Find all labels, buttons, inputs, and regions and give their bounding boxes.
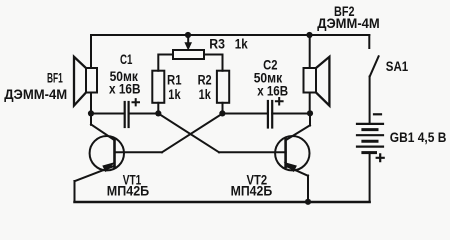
svg-text:1k: 1k: [235, 36, 248, 51]
wire bottom rail: [75, 201, 370, 204]
node top rail / BF2: [306, 32, 312, 38]
node top rail / R3 wiper: [185, 32, 191, 38]
wire C1 to node B: [129, 113, 159, 115]
wire R1 bottom lead: [157, 103, 159, 114]
speaker BF1: [74, 57, 97, 106]
svg-text:C1: C1: [120, 52, 133, 67]
wire top rail: [91, 34, 369, 36]
node D C2/BF2/VT2 collector: [307, 110, 313, 116]
svg-text:ДЭММ-4М: ДЭММ-4М: [4, 87, 67, 102]
capacitor C1: [125, 99, 139, 127]
wire R3 wiper: [187, 35, 189, 44]
svg-text:SA1: SA1: [386, 59, 409, 74]
node B C1/R1/cross-wire: [155, 110, 161, 116]
wire VT2 emitter vertical: [307, 176, 309, 203]
svg-text:R3: R3: [209, 36, 225, 51]
wire battery to bottom rail: [369, 153, 371, 202]
svg-text:х 16В: х 16В: [109, 81, 141, 96]
wire R3 right lead: [204, 55, 223, 71]
R3 wiper arrowhead: [184, 42, 192, 50]
wire R2 bottom lead: [222, 103, 224, 114]
wire BF1 top vertical: [90, 35, 92, 68]
wire VT1 emitter vertical: [74, 181, 76, 202]
node C C2/R2/cross-wire: [219, 110, 225, 116]
wire cross-couple node B to VT2 base: [158, 114, 219, 153]
wire cross-couple node C to VT1 base: [162, 114, 223, 153]
resistor R1: [152, 71, 164, 103]
svg-text:GB1 4,5 В: GB1 4,5 В: [390, 130, 447, 145]
resistor R2: [217, 71, 229, 103]
capacitor C2: [268, 98, 283, 128]
wire BF1 bottom vertical: [90, 93, 92, 114]
wire VT2 base lead: [219, 151, 286, 153]
transistor VT2: [275, 125, 310, 176]
wire R1 top lead: [158, 55, 173, 71]
wire C2 to node D: [272, 113, 310, 115]
battery GB1: [357, 114, 384, 161]
wire SA1 to battery: [369, 77, 371, 123]
resistor R3: [173, 50, 204, 59]
transistor VT1: [75, 124, 125, 181]
svg-text:МП42Б: МП42Б: [107, 184, 150, 199]
switch SA1: [369, 35, 378, 77]
svg-text:R2: R2: [198, 73, 212, 88]
wire VT1 collector vertical: [90, 114, 92, 125]
node A BF1/C1/VT1 collector: [88, 110, 94, 116]
wire node A to C1: [91, 113, 124, 115]
svg-text:х 16В: х 16В: [257, 83, 288, 98]
wire VT2 collector vertical: [309, 114, 311, 126]
svg-text:R1: R1: [167, 73, 182, 88]
wire VT1 base lead: [115, 151, 163, 153]
svg-text:1k: 1k: [199, 87, 212, 102]
wire BF2 bottom vertical: [309, 93, 311, 114]
svg-text:1k: 1k: [168, 87, 181, 102]
svg-text:ДЭММ-4М: ДЭММ-4М: [317, 16, 380, 31]
node E VT2 emitter / bottom rail: [305, 199, 311, 205]
svg-text:МП42Б: МП42Б: [231, 184, 273, 199]
speaker BF2: [304, 57, 330, 106]
wire node C to C2: [223, 113, 268, 115]
wire BF2 top vertical: [309, 35, 311, 68]
svg-text:BF1: BF1: [47, 70, 63, 85]
